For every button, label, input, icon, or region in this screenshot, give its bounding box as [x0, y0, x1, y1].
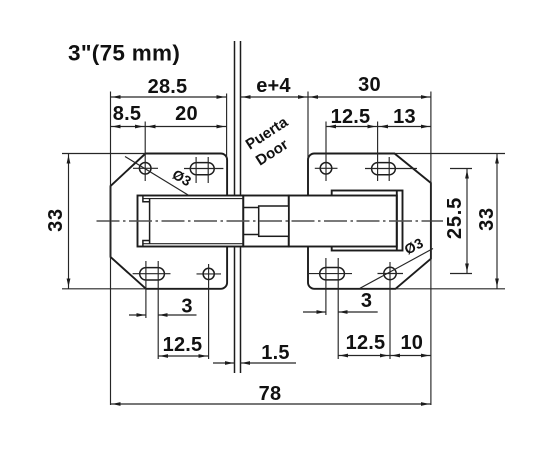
dimension 1.5 door gap — [213, 362, 296, 364]
svg-text:3: 3 — [181, 296, 192, 318]
screw hole circle bottom-right — [384, 267, 396, 279]
svg-text:30: 30 — [358, 74, 381, 96]
dimension 12.5 top right — [326, 126, 378, 128]
door-side mounting plate (right leaf) — [308, 154, 431, 289]
dimension 28.5 — [111, 96, 227, 98]
cap inner end vertical — [396, 191, 398, 251]
leader line diameter 3 top-left — [125, 157, 189, 196]
dimension 33 right — [496, 154, 498, 289]
svg-text:e+4: e+4 — [256, 75, 291, 97]
svg-text:10: 10 — [400, 332, 423, 354]
hinge body: left arm slab — [138, 196, 244, 247]
left arm end clip — [143, 196, 150, 247]
svg-text:33: 33 — [476, 207, 498, 231]
dimension 33 left — [68, 154, 70, 289]
hinge body: pivot block — [243, 196, 288, 247]
svg-text:13: 13 — [393, 106, 416, 128]
svg-text:12.5: 12.5 — [331, 106, 371, 128]
dimension e+4 — [241, 96, 309, 98]
hinge body: door-side cap rectangle — [332, 191, 403, 251]
slot hole top-left — [190, 163, 214, 175]
dimension 12.5 bottom-right — [338, 355, 390, 357]
svg-text:12.5: 12.5 — [163, 334, 203, 356]
extension line left plate right edge up — [226, 94, 228, 161]
extension line left plate edge — [110, 92, 112, 406]
svg-text:20: 20 — [175, 103, 198, 125]
extension line right plate edge — [430, 92, 432, 406]
extension top-right slot — [377, 122, 379, 182]
dimension 20 — [145, 126, 226, 128]
slot tick verticals — [196, 157, 389, 183]
screw hole circle top-right — [320, 163, 332, 175]
dimension 8.5 — [111, 126, 146, 128]
dimension 3 bottom-right slot — [303, 311, 378, 313]
screw hole circle bottom-left — [203, 268, 214, 279]
extension through top-right circle — [325, 122, 327, 182]
dimension 10 bottom-right — [390, 355, 431, 357]
dimension 30 — [308, 96, 431, 98]
bottom extension lines — [146, 258, 390, 359]
horizontal extensions 33 left — [62, 154, 146, 289]
svg-text:12.5: 12.5 — [346, 332, 386, 354]
dimension 78 overall — [111, 403, 431, 405]
hinge body: right arm slab — [289, 196, 397, 247]
dimension 25.5 right — [466, 169, 468, 274]
svg-text:8.5: 8.5 — [113, 103, 141, 125]
pivot stub lines — [243, 208, 258, 235]
left arm inner lines — [143, 199, 243, 244]
door gap line right — [240, 41, 242, 373]
svg-text:3: 3 — [361, 290, 372, 312]
hole centerline crosses — [133, 168, 417, 274]
label Puerta / Door — [242, 113, 301, 169]
dimension 13 top right — [378, 126, 431, 128]
extension through top-left circle — [144, 122, 146, 182]
svg-text:3"(75 mm): 3"(75 mm) — [68, 41, 180, 66]
wall-side mounting plate (left leaf) — [111, 154, 228, 289]
slot hole bottom-left — [140, 268, 165, 280]
pivot sleeve box — [259, 206, 289, 236]
svg-text:78: 78 — [259, 383, 282, 405]
svg-text:28.5: 28.5 — [148, 76, 188, 98]
leader line diameter 3 bottom-right — [360, 249, 433, 289]
svg-text:1.5: 1.5 — [261, 342, 289, 364]
slot hole bottom-right — [320, 268, 345, 280]
dimension 3 bottom-left slot — [129, 314, 197, 316]
horizontal extensions right side — [395, 154, 506, 289]
extension line right plate left edge up — [307, 92, 309, 161]
svg-text:33: 33 — [45, 208, 67, 232]
door gap line left — [234, 41, 236, 373]
dimension 12.5 bottom-left — [158, 355, 208, 357]
svg-text:25.5: 25.5 — [444, 197, 466, 239]
slot hole top-right — [372, 163, 396, 175]
screw hole circle top-left — [139, 163, 151, 175]
main horizontal centerline — [97, 220, 444, 222]
